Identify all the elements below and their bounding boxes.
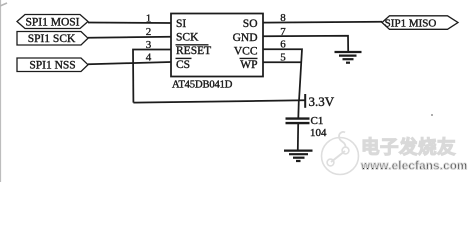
svg-text:4: 4 xyxy=(146,52,152,64)
svg-text:WP: WP xyxy=(240,59,257,71)
svg-text:SPI1 NSS: SPI1 NSS xyxy=(29,60,75,72)
svg-text:5: 5 xyxy=(280,52,286,64)
scan artifact: small speck xyxy=(431,114,433,116)
capacitor C1 stems xyxy=(297,101,300,118)
svg-text:SPI1 SCK: SPI1 SCK xyxy=(28,33,76,45)
svg-text:2: 2 xyxy=(146,26,152,38)
scan artifact: top-left smudge xyxy=(0,3,7,6)
svg-text:RESET: RESET xyxy=(176,45,211,57)
svg-text:VCC: VCC xyxy=(234,45,258,57)
ground symbol C1 xyxy=(284,150,313,152)
svg-text:6: 6 xyxy=(280,39,286,51)
svg-text:104: 104 xyxy=(310,127,327,139)
svg-text:电子发烧友: 电子发烧友 xyxy=(361,137,456,158)
watermark logo circle xyxy=(322,132,359,175)
wire pin6 VCC to 3.3V rail xyxy=(263,49,302,101)
svg-text:1: 1 xyxy=(146,13,152,25)
svg-text:CS: CS xyxy=(176,59,190,71)
svg-text:www.elecfans.com: www.elecfans.com xyxy=(360,160,468,173)
power port 3.3V bar xyxy=(304,94,306,108)
svg-text:SIP1 MISO: SIP1 MISO xyxy=(385,17,437,29)
svg-text:8: 8 xyxy=(280,12,286,24)
wire pin8 SO to SPI1_MISO xyxy=(263,21,382,24)
net label SPI1_MOSI xyxy=(17,15,88,29)
svg-text:SI: SI xyxy=(176,18,186,30)
svg-text:3: 3 xyxy=(146,39,152,51)
net label SPI1_NSS xyxy=(17,58,88,72)
svg-text:SPI1 MOSI: SPI1 MOSI xyxy=(25,16,79,28)
IC U1 body xyxy=(171,14,263,77)
net label SPI1_MISO xyxy=(382,16,458,29)
svg-text:GND: GND xyxy=(233,32,258,44)
capacitor C1 plates xyxy=(286,117,310,119)
svg-text:SO: SO xyxy=(243,18,258,30)
wire pin2 SCK xyxy=(88,37,171,38)
overline RESET xyxy=(176,44,209,46)
svg-text:7: 7 xyxy=(280,26,286,38)
wire pin3 RESET to 3.3V rail xyxy=(133,50,171,103)
3.3V rail wire xyxy=(133,100,304,102)
overline WP xyxy=(240,57,258,59)
wire pin1 SI xyxy=(88,22,171,25)
scan artifact: left edge line xyxy=(0,0,1,182)
svg-text:C1: C1 xyxy=(311,115,324,127)
overline CS xyxy=(176,57,192,59)
net label SPI1_SCK xyxy=(17,32,88,46)
wire pin7 GND to ground xyxy=(263,36,348,52)
svg-text:AT45DB041D: AT45DB041D xyxy=(172,80,233,91)
watermark text elecfans xyxy=(360,137,468,173)
svg-text:SCK: SCK xyxy=(176,32,199,44)
wire pin4 CS xyxy=(88,62,171,64)
ground symbol pin7 xyxy=(335,51,362,53)
svg-text:3.3V: 3.3V xyxy=(309,94,335,109)
wire pin5 WP joins VCC net xyxy=(263,61,301,63)
